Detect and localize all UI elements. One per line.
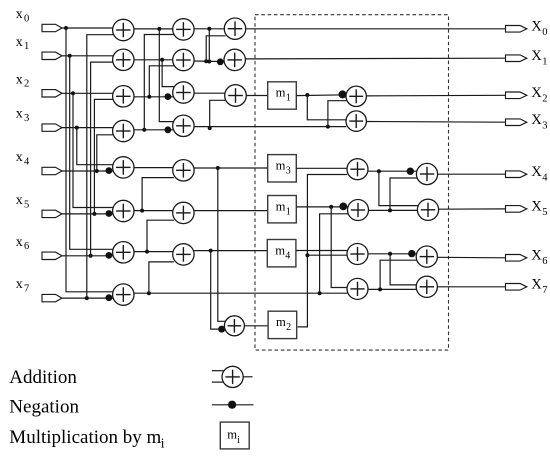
output label X2 xyxy=(531,85,547,104)
wire A23 output to A27 xyxy=(368,253,417,255)
output label X4 xyxy=(531,164,548,183)
node junction row6 tap for A20 xyxy=(209,249,213,253)
output label X6 xyxy=(531,248,547,267)
wire row7 tap up to A22 lower input xyxy=(320,214,349,293)
node junction A21 output tap xyxy=(377,169,381,173)
svg-text:m: m xyxy=(276,159,286,173)
negation dot on m1 input of A22 xyxy=(339,203,347,211)
adder A12 stage-2 row 3 xyxy=(173,115,194,136)
wire row2 tap up to A10 lower input xyxy=(149,66,174,97)
wire crossover x5 up to row 2 adder xyxy=(94,99,114,213)
legend text Negation xyxy=(9,397,79,418)
negation dot on x4 input of stage-1 adder row 4 xyxy=(106,167,113,174)
wire row6 tap down to A20 negated input xyxy=(211,251,225,330)
legend addition symbol xyxy=(212,366,253,387)
adder A1 stage-1 row 0 xyxy=(113,19,134,40)
adder A9 stage-2 row 0 xyxy=(173,19,194,40)
wire crossover x1 down to row 6 adder xyxy=(70,56,115,250)
input arrow x3 xyxy=(42,124,62,131)
svg-text:x: x xyxy=(16,72,23,87)
svg-text:4: 4 xyxy=(285,250,290,261)
adder A14 stage-2 row 5 xyxy=(173,202,194,223)
svg-text:2: 2 xyxy=(24,79,29,90)
wire A28 output to X7 arrow xyxy=(437,286,505,288)
adder A20 (pre-m2 adder) xyxy=(224,316,244,336)
wire A24 output to A28 xyxy=(368,288,417,290)
multiplier box m4 xyxy=(267,240,296,267)
input label x5 xyxy=(16,193,30,210)
input arrow x6 xyxy=(42,252,62,259)
negation dot on row3 input of A12 xyxy=(165,126,172,133)
node junction row5 tap for A13 xyxy=(140,209,144,213)
svg-text:m: m xyxy=(276,315,286,329)
node junction row7 tap for A22 xyxy=(318,291,322,295)
svg-text:6: 6 xyxy=(542,256,547,267)
wire crossover x3 down to row 4 adder xyxy=(77,128,115,165)
wire x4 arrow to stage-1 adder xyxy=(62,170,114,172)
output label X7 xyxy=(531,277,547,296)
output arrow X4 xyxy=(506,171,527,178)
adder A8 stage-1 row 7 xyxy=(113,284,134,305)
wire m1 output to A18 xyxy=(296,94,346,97)
input label x7 xyxy=(16,277,30,294)
wire row4 tap down to A20 upper input xyxy=(218,168,226,321)
negation dot on x6 input of stage-1 adder row 6 xyxy=(106,252,113,259)
adder A11 stage-2 row 2 xyxy=(173,82,194,103)
input label x3 xyxy=(16,107,30,124)
wire A21 tap down to A26 upper input xyxy=(379,171,418,205)
adder A21 stage-3 row4 xyxy=(347,159,368,180)
svg-text:5: 5 xyxy=(542,207,547,218)
svg-text:5: 5 xyxy=(24,199,29,210)
adder A2 stage-1 row 1 xyxy=(113,49,134,70)
wire x5 arrow to stage-1 adder xyxy=(62,213,114,215)
wire row6 tap up to A14 lower input xyxy=(147,220,174,251)
svg-text:X: X xyxy=(531,48,542,64)
svg-text:m: m xyxy=(276,199,286,213)
input arrow x4 xyxy=(42,167,62,174)
svg-text:x: x xyxy=(16,7,23,22)
svg-text:2: 2 xyxy=(542,93,547,104)
adder A25 stage-4 row4 (X4) xyxy=(416,163,437,184)
wire m1 output down to A24 upper input xyxy=(331,207,347,288)
node junction on x6 line xyxy=(89,254,93,258)
node junction A23 output tap xyxy=(388,252,392,256)
svg-text:i: i xyxy=(237,435,240,446)
output label X3 xyxy=(531,112,547,131)
wire m1 output down to A19 upper input xyxy=(307,95,346,120)
node junction on m1 output xyxy=(305,93,309,97)
wire A22 tap up to A25 lower input xyxy=(390,178,417,210)
output label X5 xyxy=(531,199,547,218)
svg-text:3: 3 xyxy=(542,120,547,131)
svg-text:X: X xyxy=(531,112,542,128)
input label x1 xyxy=(16,35,30,52)
svg-text:x: x xyxy=(16,107,23,122)
output arrow X2 xyxy=(506,92,527,99)
svg-text:3: 3 xyxy=(286,166,291,177)
multiplier box m2 xyxy=(268,311,297,338)
adder A24 stage-3 row7 xyxy=(347,278,368,299)
svg-text:2: 2 xyxy=(286,322,291,333)
negation dot on x7 input of stage-1 adder row 7 xyxy=(106,294,113,301)
wire row0 A1 to A9 xyxy=(134,28,174,30)
svg-text:m: m xyxy=(275,243,285,257)
node junction e3 tap for A29 xyxy=(208,126,212,130)
wire row0 tap down to A12 upper input xyxy=(159,29,174,122)
multiplier box m3 xyxy=(268,155,297,182)
node junction on x4 line xyxy=(95,169,99,173)
wire row1 tap up to A16 lower input xyxy=(206,36,225,61)
wire A12 output (e3) to A19 xyxy=(194,126,346,128)
legend text Addition xyxy=(9,367,77,388)
wire A23 tap down to A28 upper input xyxy=(390,254,417,285)
node junction A24 output tap xyxy=(378,287,382,291)
node junction on x2 line xyxy=(71,91,75,95)
output arrow X1 xyxy=(506,55,527,62)
negation dot on row2 input of A11 xyxy=(165,93,172,100)
node junction on x1 line xyxy=(68,54,72,58)
wire crossover x2 down to row 5 adder xyxy=(73,93,114,207)
legend text Multiplication by mi xyxy=(9,427,165,451)
wire x7 arrow to stage-1 adder xyxy=(62,297,114,299)
svg-text:X: X xyxy=(531,164,542,180)
svg-text:x: x xyxy=(16,235,23,250)
adder A10 stage-2 row 1 xyxy=(173,49,194,70)
svg-text:4: 4 xyxy=(542,172,548,183)
node junction row7 tap for A15 xyxy=(147,291,151,295)
wire A20 output to multiplier m2 xyxy=(244,325,268,327)
input label x0 xyxy=(16,7,30,24)
svg-text:0: 0 xyxy=(542,27,547,38)
svg-text:1: 1 xyxy=(24,41,29,52)
svg-text:3: 3 xyxy=(24,113,29,124)
svg-text:1: 1 xyxy=(286,93,291,104)
node junction where row0 drop meets row1 line xyxy=(207,60,211,64)
wire A21 output to A25 xyxy=(368,170,417,172)
wire x3 arrow to stage-1 adder xyxy=(62,127,114,129)
adder A15 stage-2 row 6 xyxy=(173,244,194,265)
node junction on x3 line xyxy=(75,126,79,130)
wire crossover x6 up to row 1 adder xyxy=(91,62,115,256)
svg-text:i: i xyxy=(161,435,165,450)
wire A16 output to X0 arrow xyxy=(246,28,506,30)
wire x1 arrow to stage-1 adder xyxy=(62,55,114,57)
svg-text:Multiplication by m: Multiplication by m xyxy=(9,427,161,448)
wire A29 output to multiplier m1 xyxy=(246,95,267,97)
legend multiplier box mi xyxy=(220,422,249,449)
wire x2 arrow to stage-1 adder xyxy=(62,92,114,94)
node junction row3 tap for A9 xyxy=(142,128,146,132)
output arrow X5 xyxy=(506,206,527,213)
svg-text:7: 7 xyxy=(24,284,29,295)
wire A27 output to X6 arrow xyxy=(437,256,505,259)
adder A7 stage-1 row 6 xyxy=(113,242,134,263)
wire row7 A8 to A24 xyxy=(134,292,348,294)
wire A24 tap up to A27 lower input xyxy=(380,260,416,289)
input label x4 xyxy=(16,150,30,167)
wire crossover x7 up to row 0 adder xyxy=(87,35,115,298)
svg-text:X: X xyxy=(531,248,542,264)
node junction A22 output tap xyxy=(388,208,392,212)
svg-text:X: X xyxy=(531,199,542,215)
wire row1 tap down to A11 upper input xyxy=(162,60,174,87)
node junction row0 tap for A12 xyxy=(157,27,161,31)
adder A17 stage-3 row1 xyxy=(224,49,245,70)
node junction on m1 bottom output xyxy=(329,205,333,209)
wire A14 output to multiplier m1 (bottom) xyxy=(194,210,268,212)
node junction on x5 line xyxy=(92,212,96,216)
adder A23 stage-3 row6 xyxy=(347,244,368,265)
negation dot on A27 input xyxy=(408,250,415,257)
output arrow X0 xyxy=(506,26,527,33)
node junction row2 tap for A10 xyxy=(147,95,151,99)
wire row3 A4 to A12 xyxy=(134,129,174,131)
input arrow x2 xyxy=(42,90,62,97)
wire A25 output to X4 arrow xyxy=(438,173,506,175)
adder A27 stage-4 row6 (X6) xyxy=(416,246,437,267)
svg-text:x: x xyxy=(16,35,23,50)
svg-text:X: X xyxy=(531,85,542,101)
input arrow x0 xyxy=(42,24,62,31)
adder A22 stage-3 row5 xyxy=(348,200,369,221)
adder A4 stage-1 row 3 xyxy=(113,120,134,141)
wire row6 A7 to A15 xyxy=(134,251,174,253)
node junction row1 tap for A16 xyxy=(204,59,208,63)
svg-text:x: x xyxy=(16,193,23,208)
node junction on x0 line xyxy=(64,26,68,30)
input label x6 xyxy=(16,235,30,252)
svg-text:1: 1 xyxy=(286,206,291,217)
wire crossover x0 down to row 7 adder xyxy=(66,28,114,292)
wire crossover x4 up to row 3 adder xyxy=(97,135,115,171)
svg-text:7: 7 xyxy=(542,285,547,296)
adder A5 stage-1 row 4 xyxy=(113,157,134,178)
wire row5 tap up to A13 lower input xyxy=(142,178,174,211)
node junction row6 tap for A14 xyxy=(145,250,149,254)
wire m1 (bottom) output to A22 xyxy=(296,206,348,208)
wire A26 output to X5 arrow xyxy=(439,208,506,210)
svg-text:X: X xyxy=(531,19,542,35)
svg-text:X: X xyxy=(531,277,542,293)
wire A18 output to X2 arrow xyxy=(366,94,505,97)
adder A29 stage-3 row2 xyxy=(225,85,247,107)
svg-text:0: 0 xyxy=(24,13,29,24)
output arrow X6 xyxy=(506,255,527,262)
legend negation symbol xyxy=(212,401,254,409)
negation dot on row6 input of A20 xyxy=(218,326,225,333)
wire A19 output to X3 arrow xyxy=(366,121,505,124)
adder A3 stage-1 row 2 xyxy=(113,86,134,107)
wire A17 output to X1 arrow xyxy=(245,57,505,60)
node junction e3 tap for A18 xyxy=(326,125,330,129)
svg-text:Negation: Negation xyxy=(9,397,79,418)
dashed boundary box of transform core xyxy=(255,15,449,350)
output arrow X7 xyxy=(506,284,527,291)
adder A19 (X3 output) xyxy=(346,111,366,131)
negation dot on x5 input of stage-1 adder row 5 xyxy=(106,210,113,217)
wire row2 A3 to A11 xyxy=(134,96,174,98)
wire A11 output to A29 xyxy=(194,92,225,94)
multiplier box m1 (top) xyxy=(268,82,297,109)
negation dot on A25 input xyxy=(407,168,414,175)
wire row4 A5 to A13 xyxy=(134,167,174,169)
node junction m2 riser tap for A23 xyxy=(305,253,309,257)
wire A15 output to multiplier m4 xyxy=(194,250,267,252)
output arrow X3 xyxy=(506,119,527,126)
svg-text:Addition: Addition xyxy=(9,367,77,388)
negation dot on m1 input of A18 xyxy=(339,90,347,98)
input arrow x1 xyxy=(42,52,62,59)
adder A18 (X2 output) xyxy=(346,86,366,106)
input arrow x7 xyxy=(42,294,62,301)
svg-text:6: 6 xyxy=(24,241,29,252)
adder A28 stage-4 row7 (X7) xyxy=(416,276,437,297)
wire m4 output to A23 xyxy=(296,250,347,252)
wire m2 riser tap to A23 lower input xyxy=(307,254,347,256)
wire row5 A6 to A14 xyxy=(134,210,174,212)
adder A13 stage-2 row 4 xyxy=(173,160,194,181)
svg-text:4: 4 xyxy=(24,156,30,167)
node junction on x7 line xyxy=(85,296,89,300)
wire row0 tap down to A17 xyxy=(208,29,210,62)
wire row0 A9 to A16 xyxy=(194,28,225,30)
wire A22 output to A26 xyxy=(369,209,418,211)
node junction row0 tap for A17 xyxy=(207,27,211,31)
multiplier box m1 (bottom) xyxy=(268,196,297,223)
adder A26 stage-4 row5 (X5) xyxy=(417,199,438,220)
svg-text:x: x xyxy=(16,277,23,292)
wire row1 A2 to A10 xyxy=(134,59,174,61)
wire e3 tap up to A29 lower input xyxy=(210,100,226,128)
wire e3 tap up to A18 lower input xyxy=(328,101,346,127)
wire row1 A10 to A17 xyxy=(194,60,226,63)
node junction row4 tap for A20 xyxy=(216,166,220,170)
svg-text:m: m xyxy=(276,86,286,100)
output label X1 xyxy=(531,48,547,67)
wire x6 arrow to stage-1 adder xyxy=(62,255,114,257)
output label X0 xyxy=(531,19,547,38)
adder A16 stage-3 row0 xyxy=(224,18,245,39)
wire m3 output to A21 xyxy=(296,167,347,169)
wire A13 output to multiplier m3 xyxy=(194,167,268,169)
wire x0 arrow to stage-1 adder xyxy=(62,27,114,29)
wire m2 output up to A21 lower input (with tap to A23) xyxy=(298,175,348,327)
svg-text:1: 1 xyxy=(542,56,547,67)
input arrow x5 xyxy=(42,210,62,217)
wire row3 tap up to A9 lower input xyxy=(144,35,174,130)
wire row7 tap up to A15 lower input xyxy=(149,262,174,293)
svg-text:x: x xyxy=(16,150,23,165)
adder A6 stage-1 row 5 xyxy=(113,200,134,221)
input label x2 xyxy=(16,72,30,89)
svg-text:m: m xyxy=(227,428,237,442)
negation dot on row1 input of A17 xyxy=(217,58,224,65)
node junction row1 tap for A11 xyxy=(160,58,164,62)
